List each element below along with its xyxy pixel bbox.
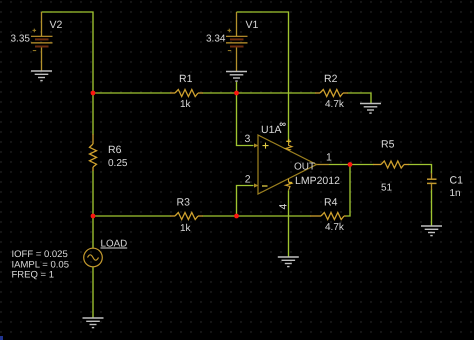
svg-text:51: 51 <box>381 183 393 194</box>
svg-text:FREQ = 1: FREQ = 1 <box>12 270 55 281</box>
junction node B <box>234 91 239 96</box>
svg-text:R2: R2 <box>324 73 338 85</box>
svg-text:1: 1 <box>326 152 332 164</box>
plus input mark <box>263 143 269 149</box>
V- power stub <box>286 179 293 191</box>
svg-text:LMP2012: LMP2012 <box>295 175 340 187</box>
wire R6 to node C <box>92 171 94 217</box>
wire R2 to ground <box>348 93 372 104</box>
resistor R1 <box>170 90 203 97</box>
junction node D <box>234 214 239 219</box>
svg-text:4.7k: 4.7k <box>325 222 345 233</box>
svg-text:IOFF = 0.025: IOFF = 0.025 <box>12 249 68 260</box>
svg-text:V1: V1 <box>246 19 259 31</box>
svg-text:R1: R1 <box>179 73 193 85</box>
wire op-amp V- to ground <box>288 191 290 258</box>
wire node D to R4 <box>237 215 311 217</box>
ground (LOAD) <box>83 318 104 328</box>
resistor R5 <box>373 161 409 168</box>
svg-text:1k: 1k <box>180 223 192 234</box>
junction node A <box>91 91 96 96</box>
wire R3 to node D <box>203 215 237 217</box>
svg-text:R6: R6 <box>108 144 122 156</box>
wire op-amp pin1 lead <box>317 164 330 166</box>
wire node C to LOAD source <box>92 216 94 249</box>
wire R1 to node B <box>203 92 237 94</box>
svg-text:0.25: 0.25 <box>108 158 128 169</box>
junction output node <box>348 162 353 167</box>
junction node C <box>91 214 96 219</box>
wire output node to R5 <box>350 164 374 166</box>
wire LOAD source to ground <box>92 267 94 319</box>
minus input mark <box>262 185 268 187</box>
ground (C1) <box>421 226 442 236</box>
op-amp ground <box>278 257 299 267</box>
pin 3 arrowhead <box>254 143 258 147</box>
wire node A to R1 <box>93 92 171 94</box>
svg-text:∞: ∞ <box>279 119 286 130</box>
svg-text:4: 4 <box>278 204 290 210</box>
blue scroll corner mark <box>0 336 3 340</box>
V+ power stub <box>286 144 293 151</box>
svg-text:3.34: 3.34 <box>206 34 226 45</box>
svg-text:OUT: OUT <box>294 162 315 173</box>
ground (V1) <box>226 72 247 82</box>
wire C1 to ground <box>431 190 433 227</box>
wire node B to R2 <box>237 92 316 94</box>
wire node D to pin 2 <box>237 186 254 217</box>
wire V2 top to node A <box>42 12 94 93</box>
svg-text:1k: 1k <box>180 99 192 110</box>
svg-text:R3: R3 <box>177 197 191 209</box>
resistor R6 <box>90 134 97 171</box>
svg-text:V2: V2 <box>50 19 63 31</box>
battery V2 <box>31 12 53 71</box>
battery V1 <box>226 12 248 72</box>
resistor R2 <box>315 90 348 97</box>
resistor R3 <box>170 213 203 220</box>
capacitor C1 <box>427 173 437 190</box>
svg-text:R5: R5 <box>381 139 395 151</box>
op-amp U1A <box>254 135 317 194</box>
wire R5 to C1 <box>409 165 432 174</box>
svg-text:3: 3 <box>245 133 251 145</box>
resistor R4 <box>310 213 346 220</box>
current source LOAD <box>84 248 103 267</box>
wire V1 top to op-amp V+ <box>237 12 289 141</box>
wire node C to R3 <box>93 215 171 217</box>
wire node B to pin 3 <box>237 93 254 146</box>
wire V1 ground to node B <box>236 82 238 93</box>
pin 2 arrowhead <box>254 183 258 187</box>
ground (V2) <box>31 71 52 81</box>
svg-text:R4: R4 <box>324 197 338 209</box>
wire R4 to output node <box>346 165 350 217</box>
svg-text:LOAD: LOAD <box>101 239 128 250</box>
svg-text:2: 2 <box>245 174 251 186</box>
ground (R2) <box>360 104 381 114</box>
svg-text:C1: C1 <box>450 175 464 187</box>
wire node A down to R6 <box>92 93 94 135</box>
svg-text:3.35: 3.35 <box>11 34 31 45</box>
svg-text:1n: 1n <box>450 188 461 199</box>
svg-text:4.7k: 4.7k <box>325 99 345 110</box>
